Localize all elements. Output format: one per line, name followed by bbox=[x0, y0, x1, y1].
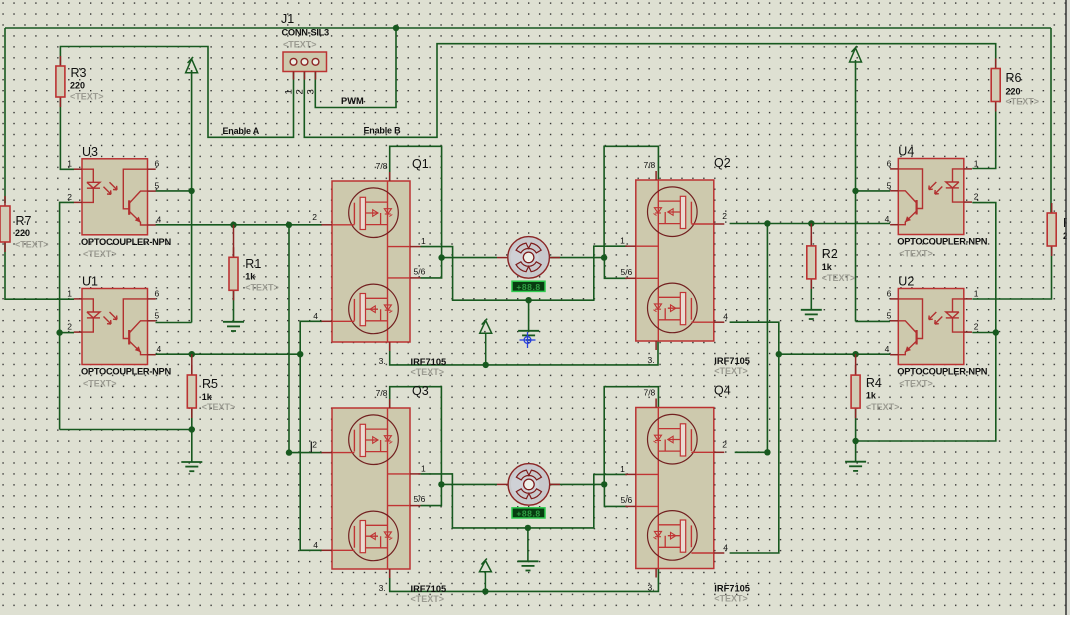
mosfet block Q3 pin stubs bbox=[322, 452, 333, 454]
svg-text:Q4: Q4 bbox=[714, 384, 731, 398]
svg-text:R7: R7 bbox=[16, 214, 32, 228]
ground under R1 bbox=[223, 322, 244, 331]
wire R2 top link bbox=[810, 224, 812, 246]
svg-text:1k: 1k bbox=[245, 272, 256, 282]
wire Q1 pin7/8 to motor1 left node bbox=[390, 146, 442, 257]
wire top rail PWM net bbox=[5, 27, 1051, 29]
svg-text:4: 4 bbox=[157, 215, 162, 225]
svg-text:R3: R3 bbox=[71, 66, 87, 80]
power VCC arrow motor1 bbox=[480, 319, 492, 365]
svg-text:1: 1 bbox=[421, 463, 426, 473]
mosfet block Q3 output pin rows bbox=[388, 473, 411, 475]
junction R1 top bbox=[230, 222, 236, 228]
wire motor1 left bbox=[442, 257, 497, 259]
svg-text:R2: R2 bbox=[822, 247, 838, 261]
junction Q1/Q3 pin4 branch bbox=[297, 351, 303, 357]
wire Q3 pin1 to Q4 pin1 lower rail bbox=[421, 474, 628, 528]
wire motor2 right to Q4 pin7/8 bbox=[604, 387, 658, 485]
svg-text:4: 4 bbox=[157, 344, 162, 354]
lcd readout M1 bbox=[512, 281, 545, 292]
svg-text:<TEXT>: <TEXT> bbox=[899, 379, 933, 389]
junction U1 pin2 bbox=[56, 329, 62, 335]
wire motor2 right bbox=[550, 483, 605, 485]
wire Q2 pin5/6 up bbox=[604, 258, 627, 279]
wire Enable A J1 pin1 to R3 bbox=[60, 47, 293, 138]
junction R5 top bbox=[189, 351, 195, 357]
wire motor2 left bbox=[441, 483, 497, 485]
wire R3 bottom to U3 pin1 bbox=[60, 97, 74, 169]
svg-text:<TEXT>: <TEXT> bbox=[899, 249, 933, 259]
junction R4 top bbox=[852, 351, 858, 357]
svg-text:1k: 1k bbox=[202, 392, 213, 402]
wire U1 pin5 bbox=[156, 322, 192, 324]
svg-text:7/8: 7/8 bbox=[376, 388, 388, 398]
wire R5 bottom bbox=[191, 408, 193, 430]
svg-text:4: 4 bbox=[723, 312, 728, 322]
lcd readout M2 bbox=[512, 508, 545, 519]
junction to Q3 pin2 branch bbox=[286, 222, 292, 228]
svg-text:5: 5 bbox=[155, 181, 160, 191]
optocoupler U3 bbox=[82, 159, 148, 235]
svg-text:3.: 3. bbox=[379, 583, 386, 593]
resistor R5 bbox=[187, 365, 196, 418]
svg-text:1: 1 bbox=[620, 464, 625, 474]
wire J1 pin3 PWM bbox=[315, 28, 396, 108]
svg-text:Q3: Q3 bbox=[412, 384, 429, 398]
svg-text:<TEXT>: <TEXT> bbox=[202, 402, 236, 412]
wire to ground under R4 bbox=[855, 441, 857, 462]
wire U3 pin2 down bbox=[60, 202, 74, 429]
svg-text:7/8: 7/8 bbox=[643, 160, 655, 170]
mosfet block Q4 bbox=[636, 408, 714, 569]
mosfet block Q2 bbox=[636, 180, 714, 341]
svg-text:220: 220 bbox=[70, 81, 85, 91]
wire Q2 pin4 down bbox=[730, 322, 779, 354]
mosfet block Q4 upper mosfet bbox=[648, 414, 698, 464]
svg-text:<TEXT>: <TEXT> bbox=[411, 594, 445, 604]
svg-text:1: 1 bbox=[67, 288, 72, 298]
wire to ground under R5 bbox=[191, 430, 193, 463]
svg-text:2: 2 bbox=[974, 322, 979, 332]
svg-text:PWM: PWM bbox=[341, 96, 364, 106]
svg-text:<TEXT>: <TEXT> bbox=[714, 366, 748, 376]
power VCC arrow left bbox=[186, 57, 198, 73]
optocoupler U4 bbox=[898, 159, 964, 235]
svg-text:3.: 3. bbox=[648, 583, 655, 593]
power VCC arrow right bbox=[850, 46, 862, 62]
wire motor2 ground stem bbox=[527, 528, 529, 561]
wire R4 bottom bbox=[855, 408, 857, 441]
svg-text:2: 2 bbox=[722, 439, 727, 449]
svg-text:4: 4 bbox=[885, 214, 890, 224]
wire branch down to Q3 pin2 bbox=[288, 225, 290, 453]
ground under R4 bbox=[845, 462, 866, 471]
wire U2 pin5 bbox=[856, 320, 891, 322]
mosfet block Q1 pin stubs bbox=[322, 224, 333, 226]
svg-text:3: 3 bbox=[306, 89, 317, 94]
svg-text:IRF7105: IRF7105 bbox=[714, 356, 750, 366]
svg-text:2: 2 bbox=[295, 89, 306, 94]
wire R4 top link bbox=[855, 354, 857, 375]
wire left VCC to U3/U1 pin5 bbox=[191, 71, 193, 323]
junction Q2/Q4 pin4 branch bbox=[776, 351, 782, 357]
mosfet block Q3 internal bus bbox=[387, 408, 389, 569]
svg-text:3.: 3. bbox=[379, 356, 386, 366]
svg-text:U1: U1 bbox=[82, 275, 98, 289]
svg-text:<TEXT>: <TEXT> bbox=[83, 379, 117, 389]
junction branch to Q4 pin2 bbox=[764, 220, 770, 226]
wire Q4 pin5/6 up bbox=[604, 484, 627, 506]
optocoupler U1 pin stubs bbox=[74, 299, 156, 355]
svg-text:<TEXT>: <TEXT> bbox=[866, 402, 900, 412]
svg-text:OPTOCOUPLER-NPN: OPTOCOUPLER-NPN bbox=[81, 367, 171, 377]
motor M1 bbox=[508, 237, 550, 279]
wire R1 to ground bbox=[233, 290, 235, 322]
resistor R8 bbox=[1047, 203, 1056, 256]
svg-text:5: 5 bbox=[887, 180, 892, 190]
svg-text:5/6: 5/6 bbox=[620, 267, 632, 277]
resistor R7 bbox=[0, 196, 10, 252]
resistor R3 bbox=[56, 56, 65, 107]
optocoupler U1 bbox=[82, 289, 148, 365]
wire U1 pin4 rail bbox=[156, 353, 301, 355]
wire U1 pin2 bbox=[60, 332, 74, 334]
svg-text:2: 2 bbox=[722, 211, 727, 221]
svg-text:220: 220 bbox=[15, 228, 30, 238]
ground under R5 bbox=[181, 462, 202, 471]
svg-text:<TEXT>: <TEXT> bbox=[83, 249, 117, 259]
svg-text:<TEXT>: <TEXT> bbox=[411, 367, 445, 377]
resistor R6 bbox=[991, 59, 1000, 112]
svg-text:1: 1 bbox=[974, 158, 979, 168]
wire left to R7 top bbox=[4, 28, 6, 203]
mosfet block Q4 output pin rows bbox=[636, 473, 659, 475]
wire Q1/Q2 pin3 rail bbox=[390, 341, 658, 365]
svg-text:3.: 3. bbox=[648, 355, 655, 365]
wire U3 pin5 bbox=[156, 190, 192, 192]
svg-text:IRF7105: IRF7105 bbox=[714, 584, 750, 594]
optocoupler U4 pin stubs bbox=[890, 169, 972, 225]
junction motor1 ground bbox=[525, 297, 531, 303]
svg-text:5/6: 5/6 bbox=[620, 495, 632, 505]
wire R6 bottom to U4 pin1 bbox=[972, 102, 995, 169]
svg-text:Q1: Q1 bbox=[412, 157, 429, 171]
margin right of window border bbox=[1067, 0, 1070, 615]
wire to Q3 pin2 bbox=[289, 452, 322, 454]
junction pin3 rail / VCC arrow bbox=[483, 362, 489, 368]
svg-text:R4: R4 bbox=[866, 376, 882, 390]
junction U3 pin5 / VCC bbox=[188, 188, 194, 194]
wire R7 bottom to U1 pin1 bbox=[5, 242, 74, 299]
junction motor1 right bbox=[601, 254, 607, 260]
mosfet block Q2 upper mosfet bbox=[648, 187, 698, 237]
svg-text:4: 4 bbox=[313, 540, 318, 550]
svg-text:7/8: 7/8 bbox=[643, 388, 655, 398]
wire LED cathode rail to ground bbox=[60, 429, 192, 431]
wire Enable B J1 pin2 to R6 bbox=[304, 44, 995, 138]
motor M2 bbox=[508, 464, 550, 506]
wire down to Q3 pin4 bbox=[300, 354, 322, 550]
svg-text:1: 1 bbox=[421, 236, 426, 246]
svg-text:<TEXT>: <TEXT> bbox=[822, 273, 856, 283]
mosfet block Q4 pin stubs bbox=[714, 451, 725, 453]
svg-text:<TEXT>: <TEXT> bbox=[245, 283, 279, 293]
svg-text:IRF7105: IRF7105 bbox=[411, 584, 447, 594]
svg-text:<TEXT>: <TEXT> bbox=[15, 240, 49, 250]
svg-text:J1: J1 bbox=[281, 12, 294, 26]
wire U2 pin2 bbox=[972, 332, 996, 334]
wire U2 pin4 rail bbox=[779, 353, 890, 355]
svg-text:1: 1 bbox=[620, 236, 625, 246]
svg-text:6: 6 bbox=[887, 288, 892, 298]
mosfet block Q4 internal bus bbox=[657, 408, 659, 569]
wire R1 top link bbox=[233, 225, 235, 257]
mosfet block Q1 output pin rows bbox=[388, 246, 411, 248]
optocoupler U3 pin stubs bbox=[74, 169, 156, 225]
junction PWM / top rail bbox=[393, 25, 399, 31]
svg-text:R1: R1 bbox=[245, 257, 261, 271]
mosfet block Q2 internal bus bbox=[657, 180, 659, 341]
svg-text:4: 4 bbox=[885, 344, 890, 354]
resistor R4 bbox=[851, 365, 860, 418]
mosfet block Q2 lower mosfet bbox=[648, 283, 698, 333]
wire Q3/Q4 pin3 rail bbox=[390, 569, 659, 592]
wire Q1 pin1 to Q2 pin1 lower rail bbox=[421, 246, 628, 300]
wire motor1 right to Q2 pin7/8 bbox=[604, 146, 658, 257]
svg-text:<TEXT>: <TEXT> bbox=[70, 92, 104, 102]
ground under motor M2 bbox=[518, 561, 539, 570]
svg-text:<TEXT>: <TEXT> bbox=[1006, 97, 1040, 107]
svg-text:<TEXT>: <TEXT> bbox=[283, 40, 317, 50]
junction U2 pin2 bbox=[993, 329, 999, 335]
svg-text:1: 1 bbox=[284, 89, 295, 94]
svg-text:CONN-SIL3: CONN-SIL3 bbox=[282, 28, 330, 38]
optocoupler U2 bbox=[898, 289, 964, 365]
svg-text:1k: 1k bbox=[822, 262, 833, 272]
svg-text:U2: U2 bbox=[898, 275, 914, 289]
mosfet block Q1 internal bus bbox=[387, 181, 389, 342]
ground under R2 bbox=[801, 310, 822, 319]
svg-text:1: 1 bbox=[974, 288, 979, 298]
wire R2 to ground bbox=[810, 279, 812, 310]
svg-text:Q2: Q2 bbox=[714, 156, 731, 170]
svg-text:OPTOCOUPLER-NPN: OPTOCOUPLER-NPN bbox=[897, 367, 987, 377]
wire motor1 ground stem bbox=[528, 300, 530, 331]
svg-text:Enable B: Enable B bbox=[364, 126, 402, 136]
junction R4 / ground rail bbox=[852, 438, 858, 444]
junction corner Q3 pin2 net bbox=[286, 449, 292, 455]
wire down to Q4 pin4 bbox=[730, 354, 779, 553]
junction R5 / ground rail bbox=[189, 426, 195, 432]
wire right LED cathode rail bbox=[856, 203, 996, 441]
power VCC arrow motor2 bbox=[479, 559, 491, 592]
wire up to Q1 pin4 bbox=[300, 321, 322, 354]
svg-text:+88.8: +88.8 bbox=[516, 282, 540, 292]
svg-text:2: 2 bbox=[67, 322, 72, 332]
svg-text:7/8: 7/8 bbox=[376, 161, 388, 171]
svg-text:IRF7105: IRF7105 bbox=[411, 357, 447, 367]
wire right rail to R8 top bbox=[1050, 28, 1052, 213]
resistor R1 bbox=[229, 247, 238, 300]
junction motor2 left bbox=[438, 481, 444, 487]
wire Q1 pin5/6 up bbox=[421, 258, 442, 278]
mosfet block Q1 upper mosfet bbox=[349, 188, 399, 238]
svg-text:1k: 1k bbox=[866, 391, 877, 401]
ground under motor M1 bbox=[518, 331, 539, 340]
svg-text:+88.8: +88.8 bbox=[516, 508, 540, 518]
svg-text:2: 2 bbox=[312, 212, 317, 222]
mosfet block Q4 lower mosfet bbox=[648, 511, 698, 561]
mosfet block Q1 gate leads bbox=[332, 224, 354, 226]
mosfet block Q4 gate leads bbox=[691, 451, 713, 453]
mosfet block Q1 bbox=[332, 181, 410, 342]
svg-text:OPTOCOUPLER-NPN: OPTOCOUPLER-NPN bbox=[81, 237, 171, 247]
motor M1 pin stubs bbox=[497, 257, 508, 259]
svg-text:220: 220 bbox=[1006, 87, 1021, 97]
svg-text:U4: U4 bbox=[898, 145, 914, 159]
wire Q3 pin7/8 to motor2 left node bbox=[390, 387, 442, 485]
wire Q2 pin2 to U4 pin4 bbox=[730, 223, 890, 225]
svg-text:OPTOCOUPLER-NPN: OPTOCOUPLER-NPN bbox=[897, 237, 987, 247]
svg-text:R6: R6 bbox=[1006, 71, 1022, 85]
svg-text:<TEXT>: <TEXT> bbox=[714, 594, 748, 604]
svg-text:2: 2 bbox=[67, 192, 72, 202]
svg-text:2: 2 bbox=[974, 192, 979, 202]
mosfet block Q1 lower mosfet bbox=[349, 284, 399, 334]
junction U4 pin5 / VCC bbox=[852, 188, 858, 194]
svg-text:U3: U3 bbox=[82, 145, 98, 159]
svg-text:6: 6 bbox=[887, 158, 892, 168]
optocoupler U2 pin stubs bbox=[890, 299, 972, 355]
wire R8 bottom to U2 pin1 bbox=[972, 246, 1051, 299]
wire to Q4 pin2 bbox=[735, 451, 768, 453]
junction motor1 left bbox=[438, 254, 444, 260]
tick at Q3 pin2 bbox=[310, 442, 312, 453]
mosfet block Q2 gate leads bbox=[691, 223, 713, 225]
wire right VCC to U4/U2 pin5 bbox=[855, 62, 857, 321]
mosfet block Q3 gate leads bbox=[332, 452, 354, 454]
svg-text:5/6: 5/6 bbox=[414, 494, 426, 504]
svg-text:2: 2 bbox=[312, 440, 317, 450]
wire U4 pin5 bbox=[856, 190, 891, 192]
svg-text:5: 5 bbox=[155, 310, 160, 320]
motor M2 pin stubs bbox=[497, 483, 508, 485]
origin marker bbox=[520, 332, 536, 348]
svg-text:5: 5 bbox=[887, 310, 892, 320]
wire branch down to Q4 pin2 bbox=[766, 224, 768, 453]
window border right bbox=[1065, 0, 1067, 615]
svg-text:6: 6 bbox=[155, 288, 160, 298]
svg-text:4: 4 bbox=[723, 543, 728, 553]
resistor R2 bbox=[807, 236, 816, 289]
wire U3 pin4 to Q1 pin2 bbox=[156, 224, 323, 226]
wire R5 top link bbox=[191, 354, 193, 375]
junction motor2 ground bbox=[525, 525, 531, 531]
connector J1 bbox=[283, 52, 327, 80]
junction pin3 rail / VCC arrow 2 bbox=[482, 588, 488, 594]
svg-text:4: 4 bbox=[313, 311, 318, 321]
mosfet block Q3 upper mosfet bbox=[349, 415, 399, 465]
svg-text:Enable A: Enable A bbox=[223, 126, 260, 136]
svg-text:6: 6 bbox=[155, 159, 160, 169]
junction R2 top bbox=[808, 220, 814, 226]
mosfet block Q2 pin stubs bbox=[714, 223, 725, 225]
svg-text:R5: R5 bbox=[202, 377, 218, 391]
junction corner Q4 pin2 net bbox=[764, 449, 770, 455]
svg-text:5/6: 5/6 bbox=[414, 266, 426, 276]
mosfet block Q2 output pin rows bbox=[636, 245, 659, 247]
svg-text:1: 1 bbox=[67, 159, 72, 169]
mosfet block Q3 lower mosfet bbox=[349, 511, 399, 561]
wire Q3 pin5/6 up bbox=[421, 484, 442, 505]
mosfet block Q3 bbox=[332, 408, 410, 569]
junction motor2 right bbox=[601, 481, 607, 487]
wire motor1 right bbox=[550, 257, 605, 259]
